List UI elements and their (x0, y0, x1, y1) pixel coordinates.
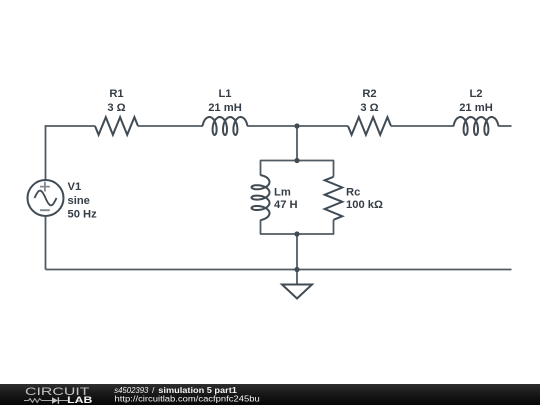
svg-text:sine: sine (68, 195, 90, 207)
wire ground stub (296, 270, 298, 285)
svg-text:21 mH: 21 mH (208, 102, 242, 114)
svg-text:Rc: Rc (346, 186, 360, 198)
svg-text:21 mH: 21 mH (459, 102, 493, 114)
wire box top rail (261, 161, 334, 177)
ground symbol (282, 285, 312, 299)
inductor L2 (454, 117, 499, 135)
wire node to box top (296, 126, 298, 161)
inductor L1 (203, 117, 248, 135)
svg-text:http://circuitlab.com/cacfpnfc: http://circuitlab.com/cacfpnfc245bu (115, 394, 260, 404)
wire box bottom to ground rail (296, 234, 298, 270)
wire V1 bottom to bottom rail (45, 216, 47, 270)
svg-text:R2: R2 (362, 88, 376, 100)
svg-text:3 Ω: 3 Ω (107, 102, 125, 114)
V1 minus sign (40, 209, 50, 211)
wire R2 to L2 (391, 125, 454, 127)
resistor R1 (95, 117, 138, 135)
wire top rail left segment (46, 126, 96, 180)
V1 plus sign (40, 182, 50, 192)
wire box bottom rail (261, 220, 334, 234)
wire L1 to R2 through node (247, 125, 348, 127)
inductor Lm (252, 175, 270, 220)
node junction top (294, 123, 299, 128)
svg-text:3 Ω: 3 Ω (360, 102, 378, 114)
node junction ground rail (294, 267, 299, 272)
svg-text:L1: L1 (218, 88, 231, 100)
svg-text:V1: V1 (68, 181, 82, 193)
resistor R2 (348, 117, 391, 135)
svg-text:100 kΩ: 100 kΩ (346, 199, 383, 211)
resistor Rc (325, 177, 343, 220)
CircuitLab logo wire zigzag and diode (24, 399, 69, 403)
svg-text:47 H: 47 H (274, 199, 298, 211)
node junction box top (294, 158, 299, 163)
svg-text:L2: L2 (469, 88, 482, 100)
svg-text:50 Hz: 50 Hz (68, 208, 98, 220)
node junction box bottom (294, 231, 299, 236)
wire L2 to open end (498, 125, 511, 127)
voltage source V1 (28, 180, 64, 216)
wire bottom rail (46, 269, 512, 271)
svg-text:R1: R1 (109, 88, 123, 100)
wire R1 to L1 (138, 125, 203, 127)
svg-text:LAB: LAB (67, 395, 92, 405)
svg-text:Lm: Lm (274, 186, 291, 198)
